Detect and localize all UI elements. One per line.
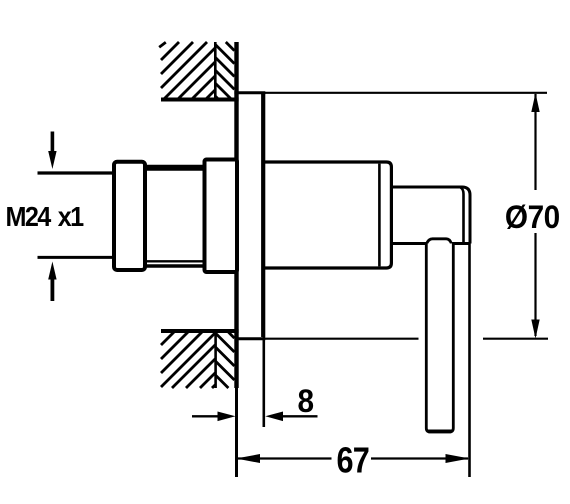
wall face extension line down to 67 dimension <box>235 388 238 477</box>
67 dimension line right segment <box>371 457 468 459</box>
M24x1 bottom arrow shaft <box>51 279 55 301</box>
Ø70 lower arrowhead pointing down <box>531 320 539 339</box>
8 dimension left arrowhead pointing right at wall face <box>218 412 236 422</box>
handle hub outline <box>391 187 470 244</box>
front sleeve inner edge line <box>378 164 381 267</box>
8 dimension left tail line <box>192 415 220 417</box>
svg-text:M24: M24 <box>6 201 52 233</box>
M24x1 top arrowhead pointing down <box>48 151 56 169</box>
thread section bottom outer line <box>145 264 205 267</box>
svg-text:67: 67 <box>337 440 370 481</box>
top wall hatch left diagonal lines <box>159 42 215 100</box>
M24x1 top arrow shaft <box>51 132 55 153</box>
front sleeve body outline <box>263 162 391 268</box>
M24x1 bottom arrowhead pointing up <box>48 262 56 280</box>
handle hub inner cap line <box>461 188 464 244</box>
Ø70 bottom extension line right segment <box>483 338 548 340</box>
plate front extension line down to 8 dimension <box>262 337 265 427</box>
M24x1 bottom leader line <box>38 256 115 259</box>
bottom wall hatch right diagonal lines <box>216 331 235 388</box>
67 right arrowhead pointing right <box>446 454 470 463</box>
handle hub bottom edge right segment <box>452 242 470 245</box>
plate top edge <box>234 91 265 94</box>
bottom wall hatch top edge <box>161 329 239 333</box>
8 dimension right tail line <box>282 415 318 417</box>
lever bar outline <box>426 244 453 433</box>
bottom wall hatch middle boundary line <box>214 331 217 388</box>
thread section bottom root line <box>145 260 205 262</box>
Ø70 dimension line lower segment <box>534 233 536 336</box>
Ø70 bottom extension line left segment <box>265 338 419 340</box>
Ø70 top extension line <box>265 92 547 94</box>
8 dimension right arrowhead pointing left at plate front <box>265 412 283 422</box>
svg-text:x1: x1 <box>58 201 85 233</box>
hub right edge extension line to 67 dimension <box>468 244 471 478</box>
lever bottom edge emphasis <box>428 429 452 433</box>
lever top bump <box>427 239 452 244</box>
plate bottom edge <box>234 337 265 340</box>
top wall hatch middle boundary line <box>214 42 217 100</box>
bottom wall hatch left diagonal lines <box>161 331 215 388</box>
wall face line <box>234 42 238 388</box>
M24x1 top leader line <box>38 171 115 174</box>
valve mounting flange rectangle <box>205 160 238 273</box>
67 left arrowhead pointing left <box>236 454 260 463</box>
top wall hatch right diagonal lines <box>215 42 234 100</box>
valve end cap rectangle (M24 cap) <box>114 162 145 270</box>
handle hub bottom edge left segment <box>391 242 426 245</box>
svg-text:Ø70: Ø70 <box>505 199 560 235</box>
svg-text:8: 8 <box>298 383 315 419</box>
top wall hatch bottom edge <box>161 98 239 102</box>
Ø70 upper arrowhead pointing up <box>531 93 539 112</box>
M24x1 label <box>6 201 85 233</box>
67 dimension line left segment <box>237 457 332 459</box>
escutcheon plate front line <box>261 93 265 337</box>
thread section top line <box>145 165 205 171</box>
Ø70 dimension line upper segment <box>534 94 536 190</box>
